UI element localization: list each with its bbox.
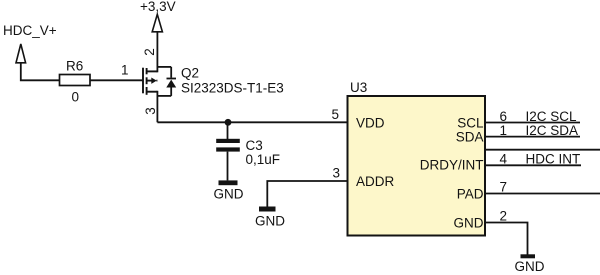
wire SCL (pin 6) xyxy=(485,122,580,124)
svg-text:U3: U3 xyxy=(350,80,367,95)
svg-text:PAD: PAD xyxy=(457,187,484,202)
body diode of Q2 xyxy=(157,67,176,96)
svg-text:2: 2 xyxy=(500,209,508,224)
svg-text:0: 0 xyxy=(72,90,80,105)
svg-text:SI2323DS-T1-E3: SI2323DS-T1-E3 xyxy=(181,81,284,96)
svg-text:+3,3V: +3,3V xyxy=(140,0,176,14)
svg-text:GND: GND xyxy=(255,214,285,229)
power arrow +3,3V xyxy=(152,14,162,32)
svg-text:4: 4 xyxy=(500,151,508,166)
svg-text:Q2: Q2 xyxy=(181,66,199,81)
transistor Q2 (P-channel MOSFET) xyxy=(143,68,157,95)
wire C3 to ground xyxy=(227,152,229,181)
svg-text:GND: GND xyxy=(454,216,484,231)
svg-text:DRDY/INT: DRDY/INT xyxy=(420,157,484,172)
svg-text:7: 7 xyxy=(500,180,508,195)
IC U3 xyxy=(348,96,486,236)
svg-text:ADDR: ADDR xyxy=(356,174,395,189)
wire junction to C3 xyxy=(227,122,229,139)
svg-text:SDA: SDA xyxy=(456,130,484,145)
svg-text:2: 2 xyxy=(142,48,157,56)
svg-text:C3: C3 xyxy=(246,138,263,153)
ground symbol below pin 2 xyxy=(515,254,545,274)
wire DRDY/INT (pin 4) xyxy=(485,164,581,166)
svg-text:GND: GND xyxy=(515,259,545,274)
svg-text:HDC INT: HDC INT xyxy=(526,151,581,166)
wire unnamed pin to right edge xyxy=(485,149,600,151)
junction node on VDD rail xyxy=(225,119,232,126)
svg-text:0,1uF: 0,1uF xyxy=(246,152,281,167)
svg-text:I2C SCL: I2C SCL xyxy=(526,109,578,124)
wire VDD rail to pin 5 xyxy=(157,121,348,123)
capacitor C3 xyxy=(216,139,240,152)
svg-text:3: 3 xyxy=(333,166,341,181)
svg-text:VDD: VDD xyxy=(356,115,385,130)
wire GND (pin 2) xyxy=(485,223,528,255)
svg-text:SCL: SCL xyxy=(457,116,484,131)
svg-text:6: 6 xyxy=(500,109,508,124)
svg-text:1: 1 xyxy=(121,63,129,78)
svg-text:I2C SDA: I2C SDA xyxy=(526,123,579,138)
svg-text:GND: GND xyxy=(214,187,244,202)
svg-text:R6: R6 xyxy=(66,59,83,74)
svg-text:HDC_V+: HDC_V+ xyxy=(3,23,57,38)
power arrow HDC_V+ xyxy=(16,44,26,63)
wire SDA (pin 1) xyxy=(485,136,580,138)
svg-text:1: 1 xyxy=(500,123,508,138)
wire R6 to gate of Q2 xyxy=(90,79,143,81)
ground symbol below ADDR wire xyxy=(255,207,285,229)
wire PAD (pin 7) xyxy=(485,193,600,195)
wire +3,3V to source of Q2 xyxy=(156,32,158,73)
svg-text:5: 5 xyxy=(332,107,340,122)
wire drain of Q2 to VDD rail xyxy=(156,91,158,123)
wire ADDR pin to ground xyxy=(267,181,348,207)
ground symbol below C3 xyxy=(214,180,244,201)
svg-text:3: 3 xyxy=(143,107,158,115)
wire HDC_V+ to R6 xyxy=(21,63,60,81)
resistor R6 xyxy=(60,75,91,86)
